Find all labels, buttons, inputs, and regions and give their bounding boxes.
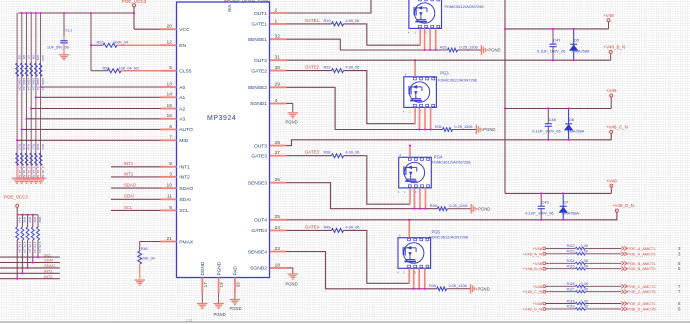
svg-text:POE_D_AMCT1: POE_D_AMCT1: [627, 302, 655, 306]
svg-text:SDAI: SDAI: [124, 194, 134, 199]
svg-text:GATE3: GATE3: [305, 150, 320, 155]
wire OUT4 / +V48_D_N rail: [287, 212, 617, 220]
svg-text:PGND: PGND: [286, 119, 298, 124]
svg-text:SCL: SCL: [44, 252, 52, 257]
svg-text:OUT1: OUT1: [254, 11, 267, 17]
svg-text:+V48: +V48: [533, 284, 543, 289]
svg-text:OUT4: OUT4: [254, 218, 267, 224]
svg-text:+V48_B_N: +V48_B_N: [604, 44, 626, 49]
svg-text:1: 1: [275, 18, 278, 24]
wire A2 net: [31, 108, 160, 110]
wire GATE4 net with resistor R48: [287, 229, 332, 231]
pin 30 GATE2 (right): [270, 70, 287, 72]
svg-text:R52: R52: [38, 217, 42, 223]
svg-text:29: 29: [275, 82, 281, 88]
svg-text:0.25_1206: 0.25_1206: [454, 125, 472, 129]
svg-text:GATE1: GATE1: [305, 18, 320, 23]
svg-text:FDMC3612/AON7296: FDMC3612/AON7296: [432, 160, 472, 165]
pin 14 A1 (left): [161, 96, 177, 98]
wire drain stub: [414, 60, 416, 77]
svg-text:24: 24: [275, 225, 281, 231]
svg-text:SENSE3: SENSE3: [248, 181, 268, 187]
svg-text:100K_04: 100K_04: [36, 78, 40, 90]
svg-text:R114: R114: [567, 259, 575, 263]
svg-text:0.1UF_100V_06: 0.1UF_100V_06: [532, 128, 560, 133]
svg-text:R112: R112: [567, 244, 575, 248]
svg-text:POE_B_AMCT1: POE_B_AMCT1: [627, 262, 655, 266]
svg-text:MP3924_QFN32_PGND: MP3924_QFN32_PGND: [224, 0, 270, 3]
svg-text:16: 16: [167, 113, 173, 119]
svg-text:21: 21: [167, 236, 173, 242]
wire SDAO net with label: [111, 187, 161, 189]
svg-text:EN: EN: [179, 43, 186, 49]
svg-text:0.1UF_100V_06: 0.1UF_100V_06: [525, 211, 553, 216]
svg-text:SDAI: SDAI: [179, 197, 190, 203]
svg-text:2: 2: [275, 7, 278, 13]
svg-text:4.7K_04: 4.7K_04: [33, 242, 37, 254]
svg-text:8: 8: [169, 161, 172, 167]
svg-text:0_06: 0_06: [581, 282, 589, 286]
svg-text:R7: R7: [27, 55, 31, 59]
svg-text:R22: R22: [41, 144, 45, 150]
wire source stubs to sense row: [419, 107, 421, 129]
wire source stubs to sense row: [413, 268, 415, 289]
capacitor CL1: [63, 13, 65, 36]
ground SGND2 PGND: [287, 267, 293, 269]
wire +V48 rail phase D: [505, 192, 611, 194]
svg-text:R16: R16: [27, 144, 31, 150]
resistor R20: [90, 13, 92, 71]
pin 3 INT2 (left): [161, 176, 177, 178]
pin 19 PGND (bottom): [218, 278, 220, 294]
svg-text:R49: R49: [429, 284, 436, 288]
svg-text:R31: R31: [435, 125, 442, 129]
svg-text:PGND: PGND: [478, 286, 490, 291]
svg-text:INT1: INT1: [179, 165, 190, 171]
svg-text:30: 30: [275, 65, 281, 71]
svg-text:OUT3: OUT3: [254, 143, 267, 149]
resistor bank pullups R44-R52 (5x 4.7K): [16, 215, 18, 227]
svg-text:SDAI: SDAI: [44, 258, 53, 263]
wire SENSEB net: [287, 87, 443, 129]
svg-text:3: 3: [678, 246, 681, 251]
pin 18 SGND2 (right): [270, 267, 287, 269]
wire +V48 rail phase C: [505, 108, 611, 110]
svg-text:11: 11: [167, 194, 172, 200]
svg-text:28: 28: [275, 140, 281, 146]
power port PGND (sense): [475, 125, 477, 135]
wire INT1 net with label: [111, 166, 161, 168]
wire INT2 net with label: [111, 176, 161, 178]
wire GATE3 net with resistor R38: [287, 155, 332, 157]
svg-text:OUT2: OUT2: [254, 58, 267, 64]
svg-text:100K_04: 100K_04: [113, 40, 128, 44]
svg-text:100K_04: 100K_04: [31, 78, 35, 90]
pin 6 AUTO (left): [161, 128, 177, 130]
svg-text:1: 1: [403, 271, 405, 275]
flag +V48 (B): [607, 19, 610, 22]
ground CL1: [59, 54, 70, 56]
svg-text:0_06: 0_06: [581, 250, 589, 254]
pin 10 SDAO (left): [161, 187, 177, 189]
ground symbols under strap bank: [16, 166, 18, 178]
svg-text:A1: A1: [179, 95, 185, 101]
svg-text:R13: R13: [41, 55, 45, 61]
svg-text:6: 6: [678, 306, 681, 311]
svg-text:PGND: PGND: [216, 261, 221, 275]
svg-text:R5: R5: [22, 55, 26, 59]
svg-text:4.7K_04: 4.7K_04: [28, 242, 32, 254]
svg-text:C47: C47: [553, 37, 560, 42]
svg-text:7: 7: [169, 135, 172, 141]
svg-text:PGND: PGND: [478, 206, 490, 211]
svg-text:R9: R9: [31, 55, 35, 59]
pin 25 OUT4 (right): [270, 219, 287, 221]
svg-text:VIN: VIN: [227, 5, 232, 12]
wire MID net: [17, 139, 160, 141]
svg-text:R28: R28: [103, 67, 110, 71]
svg-text:0.25_1206: 0.25_1206: [460, 45, 478, 49]
transistor Q PG2 FDMC3612/AON7296: [409, 0, 442, 28]
resistor R49 0.25 sense: [437, 287, 447, 291]
svg-text:A2: A2: [179, 106, 185, 112]
svg-text:+V48: +V48: [606, 88, 617, 93]
pin 9 SCL (left): [161, 209, 177, 211]
svg-text:4.99_06: 4.99_06: [346, 66, 360, 70]
svg-text:GATE4: GATE4: [305, 224, 320, 229]
port POE_C_AMCT0 symbol: [621, 290, 626, 294]
svg-text:R19: R19: [323, 19, 330, 23]
power port PGND (sense): [480, 45, 482, 55]
wire GATE2 net with resistor R29: [287, 70, 332, 72]
svg-text:+V48: +V48: [533, 261, 543, 266]
svg-text:PMAX: PMAX: [179, 239, 194, 245]
wire SDAO stub to left edge: [0, 267, 60, 269]
wire SENSEA net: [287, 39, 448, 50]
svg-text:6: 6: [678, 301, 681, 306]
svg-text:7: 7: [678, 284, 681, 289]
svg-text:4: 4: [275, 98, 278, 104]
wire SENSED net: [287, 252, 437, 289]
svg-text:1UF_50V_06: 1UF_50V_06: [47, 46, 69, 50]
svg-text:R48: R48: [323, 225, 330, 229]
svg-text:0_06: 0_06: [581, 299, 589, 303]
resistor R46 20K: [140, 241, 161, 243]
wire AUTO net: [22, 128, 161, 130]
flag +V48_C_N: [610, 130, 613, 133]
svg-text:4.7K_04: 4.7K_04: [17, 242, 21, 254]
wire +V48 rail phase B: [505, 28, 609, 30]
port POE_D_AMCT1 symbol: [621, 302, 626, 306]
svg-text:MID: MID: [179, 138, 188, 144]
svg-text:25: 25: [275, 214, 281, 220]
svg-text:12: 12: [167, 40, 173, 46]
svg-text:R119: R119: [567, 305, 575, 309]
svg-text:PGND: PGND: [483, 127, 495, 132]
svg-text:4.7K_04: 4.7K_04: [38, 242, 42, 254]
svg-text:FDMC3612/AON7296: FDMC3612/AON7296: [445, 4, 485, 9]
svg-text:4.99_06: 4.99_06: [346, 19, 360, 23]
wire SDAI net with label: [111, 198, 161, 200]
svg-text:SENSE2: SENSE2: [248, 85, 268, 91]
svg-text:8: 8: [399, 234, 401, 238]
svg-text:27: 27: [275, 150, 281, 156]
pin 2 OUT1 (right): [270, 12, 287, 14]
svg-text:GATE4: GATE4: [251, 228, 267, 234]
svg-text:0_06: 0_06: [581, 265, 589, 269]
pin 33 PAD (bottom): [234, 278, 236, 294]
svg-text:R50: R50: [28, 217, 32, 223]
svg-text:+V48_C_N: +V48_C_N: [522, 289, 542, 294]
pin 16 A3 (left): [161, 118, 177, 120]
svg-text:1: 1: [404, 190, 406, 194]
pin 28 OUT3 (right): [270, 145, 287, 147]
wire drain stub: [409, 146, 411, 158]
capacitor C49 0.1uF 100V: [540, 193, 542, 206]
svg-text:R38: R38: [323, 151, 330, 155]
pin 8 INT1 (left): [161, 166, 177, 168]
port POE_C_AMCT1 symbol: [621, 284, 626, 288]
svg-text:SENSE4: SENSE4: [248, 249, 268, 255]
svg-text:R115: R115: [567, 265, 575, 269]
svg-text:0.25_1206: 0.25_1206: [449, 284, 467, 288]
svg-text:R113: R113: [567, 250, 575, 254]
svg-text:R11: R11: [36, 55, 40, 61]
svg-text:20: 20: [167, 24, 173, 30]
port POE_A_AMCT0 symbol: [621, 252, 626, 256]
svg-text:VCC: VCC: [179, 27, 190, 33]
svg-text:R39: R39: [430, 204, 437, 208]
svg-text:0.25_1206: 0.25_1206: [449, 204, 467, 208]
svg-text:R117: R117: [567, 288, 575, 292]
svg-text:0_06: 0_06: [581, 305, 589, 309]
svg-text:C49: C49: [542, 199, 549, 204]
svg-text:+V48: +V48: [606, 178, 617, 183]
svg-text:4: 4: [408, 31, 410, 35]
wire vertical strap columns x6: [16, 13, 18, 178]
svg-text:23: 23: [275, 246, 281, 252]
svg-text:INT1: INT1: [44, 269, 52, 274]
power port PGND (sense): [470, 204, 472, 214]
svg-text:PG4: PG4: [434, 154, 443, 159]
wire VCC to pin 20: [134, 28, 161, 30]
svg-text:D6: D6: [569, 117, 574, 122]
svg-text:R17: R17: [31, 144, 35, 150]
flag +V48_D_N: [615, 209, 618, 212]
svg-text:POE_C_AMCT1: POE_C_AMCT1: [627, 285, 655, 289]
svg-text:0_06: 0_06: [581, 288, 589, 292]
svg-text:SDAO: SDAO: [179, 186, 193, 192]
wire pullup rail: [17, 214, 38, 216]
pin 12 EN (left): [161, 44, 177, 46]
svg-text:GATE2: GATE2: [251, 68, 267, 74]
pin 1 GATE1 (right): [270, 23, 287, 25]
svg-text:PGND: PGND: [286, 282, 298, 287]
svg-text:R118: R118: [567, 299, 575, 303]
svg-text:+V48: +V48: [603, 13, 614, 18]
svg-text:INT2: INT2: [179, 175, 190, 181]
svg-text:18: 18: [275, 262, 281, 268]
pin 17 DGND (bottom): [201, 278, 203, 294]
svg-text:0_06: 0_06: [581, 244, 589, 248]
svg-text:R44: R44: [17, 217, 21, 223]
port POE_B_AMCT1 symbol: [621, 261, 626, 265]
svg-text:R51: R51: [33, 217, 37, 223]
wire source stubs to sense row: [424, 28, 426, 50]
svg-text:17: 17: [203, 282, 208, 288]
svg-text:4: 4: [398, 190, 400, 194]
svg-text:20K_04: 20K_04: [142, 257, 155, 261]
svg-text:SCL: SCL: [179, 208, 189, 214]
svg-text:POE_C_AMCT0: POE_C_AMCT0: [627, 290, 655, 294]
svg-text:100K_04: 100K_04: [27, 78, 31, 90]
svg-text:GATE2: GATE2: [305, 65, 320, 70]
wire INT1 stub to left edge: [0, 272, 60, 274]
wire VCC rail horizontal y=13: [18, 12, 134, 14]
svg-text:SMAJ58A: SMAJ58A: [572, 49, 590, 54]
svg-text:100K_04: 100K_04: [41, 78, 45, 90]
port POE_B_AMCT0 symbol: [621, 267, 626, 271]
svg-text:1: 1: [409, 110, 411, 114]
svg-text:POE_A_AMCT1: POE_A_AMCT1: [627, 247, 655, 251]
svg-text:4.99_06: 4.99_06: [346, 225, 360, 229]
svg-text:D7: D7: [564, 199, 569, 204]
svg-text:7: 7: [678, 289, 681, 294]
resistor bank RN lower (6 strap resistors to ground): [16, 153, 19, 166]
svg-text:PGND: PGND: [488, 48, 500, 53]
svg-text:4: 4: [403, 110, 405, 114]
wire A1 net: [36, 96, 161, 98]
pin 23 SENSE4 (right): [270, 251, 287, 253]
svg-text:+V48: +V48: [533, 301, 543, 306]
svg-text:POE_A_AMCT0: POE_A_AMCT0: [627, 252, 655, 256]
svg-text:SGND2: SGND2: [250, 266, 267, 272]
pin 20 VCC (left): [161, 28, 177, 30]
wire +V48 vertical bus: [504, 0, 506, 193]
svg-text:R3: R3: [17, 55, 21, 59]
wire SCL stub to left edge: [0, 256, 60, 258]
node junction POE_VCC3/rail: [133, 12, 135, 14]
svg-text:A0: A0: [179, 85, 185, 91]
wire SDAI stub to left edge: [0, 262, 60, 264]
svg-text:4.7K_04: 4.7K_04: [23, 242, 27, 254]
capacitor C47 0.1uF 100V: [552, 29, 554, 44]
diode D7 SMAJ58A TVS: [562, 193, 564, 206]
svg-text:+V48: +V48: [533, 246, 543, 251]
svg-text:SDAO: SDAO: [44, 263, 55, 268]
svg-text:R20: R20: [97, 40, 104, 44]
svg-text:100K_04: 100K_04: [22, 78, 26, 90]
svg-text:4.99_06: 4.99_06: [346, 151, 360, 155]
pin 32 SENSE1 (right): [270, 38, 287, 40]
svg-text:5: 5: [678, 261, 681, 266]
svg-text:GATE3: GATE3: [251, 154, 267, 160]
wire source stubs to sense row: [413, 188, 415, 209]
svg-text:POE_VCC3: POE_VCC3: [4, 195, 28, 200]
resistor R31 0.25 sense: [443, 128, 453, 132]
svg-text:SMAJ58A: SMAJ58A: [567, 128, 585, 133]
svg-text:4: 4: [397, 271, 399, 275]
resistor bank RN upper (6 strap resistors): [16, 63, 19, 77]
svg-text:19: 19: [219, 282, 224, 288]
svg-text:SENSE1: SENSE1: [248, 37, 268, 43]
wire OUT3 / +V48_C_N rail: [287, 133, 612, 145]
svg-text:AUTO: AUTO: [179, 127, 193, 133]
svg-text:32: 32: [275, 34, 281, 40]
svg-text:D5: D5: [574, 37, 579, 42]
svg-text:R18: R18: [36, 144, 40, 150]
power port PGND (sense): [470, 284, 472, 294]
flag +V48 (D): [610, 184, 613, 187]
resistor R28: [91, 70, 108, 72]
svg-text:1: 1: [414, 31, 416, 35]
ground PGND pin19: [218, 294, 220, 304]
pin 7 MID (left): [161, 139, 177, 141]
svg-text:C48: C48: [549, 117, 556, 122]
svg-text:PGND: PGND: [214, 312, 226, 317]
wire drain stub: [419, 0, 421, 1]
pin 13 A0 (left): [161, 86, 177, 88]
svg-text:R29: R29: [323, 66, 330, 70]
sheet border bottom line: [0, 321, 690, 323]
transistor Q PG4 FDMC3612/AON7296: [399, 157, 432, 188]
svg-text:A3: A3: [179, 117, 185, 123]
svg-text:DGND: DGND: [200, 261, 205, 275]
wire OUT2 / +V48_B_N rail: [287, 59, 609, 61]
svg-text:1.15: 1.15: [186, 318, 192, 322]
svg-text:+V48_D_N: +V48_D_N: [612, 203, 634, 208]
resistor R39 0.25 sense: [437, 207, 447, 211]
diode D5 SMAJ58A TVS: [573, 29, 575, 44]
svg-text:10: 10: [167, 183, 173, 189]
svg-text:PAD: PAD: [233, 266, 238, 276]
svg-text:R21: R21: [440, 45, 447, 49]
svg-text:POE_D_AMCT0: POE_D_AMCT0: [627, 307, 655, 311]
svg-text:9: 9: [169, 205, 172, 211]
ground DGND pin17: [201, 294, 203, 304]
svg-text:33: 33: [236, 282, 241, 288]
transistor Q PG3 FDMC3612/AON7296: [404, 77, 437, 108]
pin 4 SGND1 (right): [270, 102, 287, 104]
wire SCL net with label: [111, 209, 161, 211]
svg-text:+V48_C_N: +V48_C_N: [606, 124, 628, 129]
svg-text:10K_04_NC: 10K_04_NC: [119, 67, 140, 71]
flag +V48 (C): [610, 94, 613, 97]
svg-text:31: 31: [275, 55, 281, 61]
svg-text:POE_B_AMCT0: POE_B_AMCT0: [627, 267, 655, 271]
pin 27 GATE3 (right): [270, 155, 287, 157]
svg-text:26: 26: [275, 177, 281, 183]
resistor R21 0.25 sense: [448, 48, 458, 52]
IC U1 MP3924 controller body: [177, 2, 270, 278]
svg-text:CL1: CL1: [65, 28, 72, 32]
svg-text:8: 8: [400, 153, 402, 157]
flag +V48_B_N: [609, 50, 612, 53]
svg-text:R46: R46: [141, 247, 148, 251]
wire OUT1 net to top edge: [287, 0, 372, 13]
svg-text:6: 6: [169, 124, 172, 130]
svg-text:0.1UF_100V_06: 0.1UF_100V_06: [537, 49, 565, 54]
svg-text:SCL: SCL: [124, 205, 133, 210]
svg-text:13: 13: [167, 81, 173, 87]
svg-text:100K_04: 100K_04: [17, 78, 21, 90]
svg-text:GATE1: GATE1: [251, 22, 267, 28]
svg-text:INT1: INT1: [124, 161, 134, 166]
svg-text:CLS5: CLS5: [179, 69, 192, 75]
port POE_D_AMCT0 symbol: [621, 307, 626, 311]
transistor Q PG5 FDMC3612/AON7296: [398, 238, 431, 269]
pin 21 PMAX (left): [161, 241, 177, 243]
